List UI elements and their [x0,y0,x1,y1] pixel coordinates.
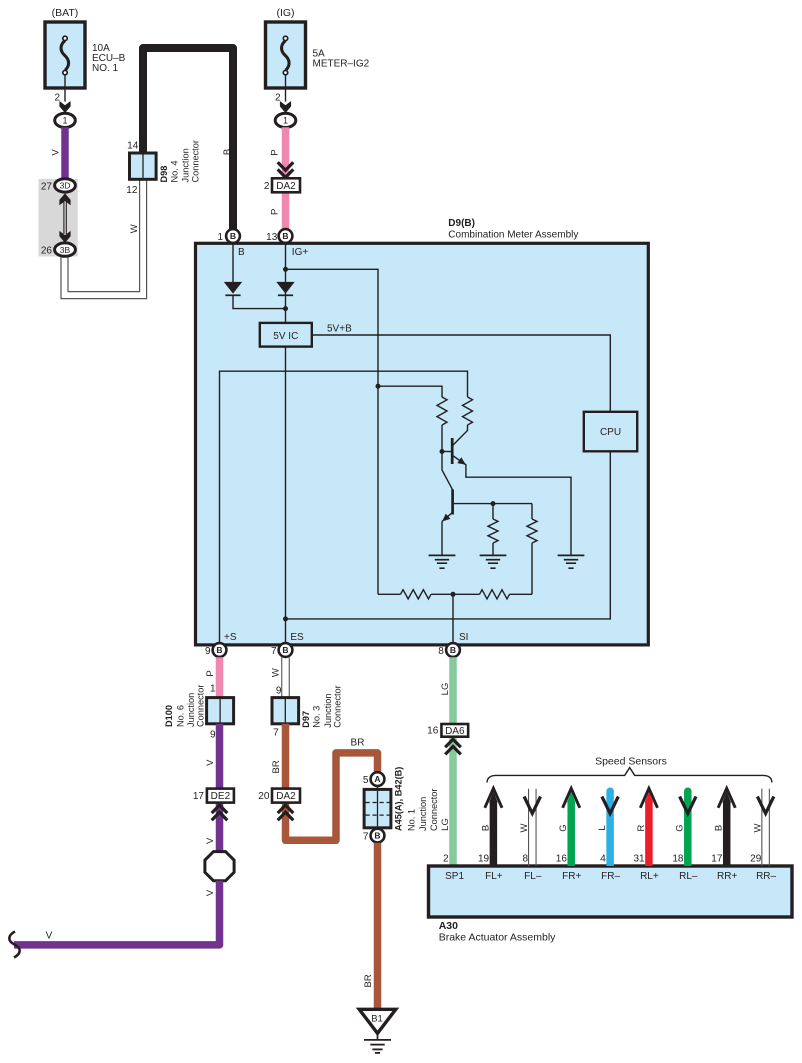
svg-text:SP1: SP1 [445,871,464,882]
svg-text:(BAT): (BAT) [52,7,79,19]
svg-text:Connector: Connector [195,685,205,727]
svg-text:G: G [675,824,686,831]
svg-text:ES: ES [290,632,304,643]
svg-text:Brake Actuator Assembly: Brake Actuator Assembly [439,931,556,943]
svg-text:LG: LG [440,818,451,831]
svg-text:B: B [714,825,725,831]
svg-text:2: 2 [443,854,449,865]
svg-text:BR: BR [363,974,374,987]
svg-text:31: 31 [633,854,645,865]
svg-text:METER–IG2: METER–IG2 [313,59,370,70]
svg-text:1: 1 [210,683,216,694]
svg-text:P: P [205,670,216,676]
svg-text:19: 19 [478,854,490,865]
svg-text:W: W [519,823,530,832]
svg-text:+S: +S [224,632,237,643]
svg-text:B: B [282,645,288,655]
svg-text:V: V [51,149,62,156]
svg-text:9: 9 [210,729,216,740]
svg-text:1: 1 [62,116,67,126]
svg-text:17: 17 [193,791,205,802]
svg-text:8: 8 [438,646,444,657]
svg-text:Combination Meter Assembly: Combination Meter Assembly [448,230,578,241]
svg-text:Junction: Junction [181,148,191,182]
svg-text:2: 2 [264,181,270,192]
svg-text:27: 27 [41,181,53,192]
svg-text:DA2: DA2 [276,791,296,802]
svg-text:No. 3: No. 3 [311,706,321,728]
svg-text:SI: SI [459,632,468,643]
svg-text:W: W [129,224,140,233]
svg-text:W: W [270,668,281,677]
svg-text:B: B [216,645,222,655]
svg-text:9: 9 [276,685,282,696]
svg-text:A: A [374,774,380,784]
svg-text:26: 26 [41,245,53,256]
svg-text:16: 16 [556,854,568,865]
svg-text:RR–: RR– [756,871,776,882]
svg-text:RL+: RL+ [640,871,659,882]
svg-text:V: V [46,931,53,942]
svg-text:LG: LG [440,683,451,696]
svg-text:V: V [205,889,216,896]
svg-text:V: V [205,837,216,844]
svg-text:7: 7 [273,727,279,738]
svg-text:5: 5 [363,775,369,786]
svg-text:B: B [238,247,245,258]
svg-text:A45(A), B42(B): A45(A), B42(B) [394,767,404,831]
svg-text:CPU: CPU [600,427,621,438]
svg-text:B: B [450,645,456,655]
svg-text:Junction: Junction [418,797,428,831]
svg-text:DA6: DA6 [445,726,465,737]
svg-text:DE2: DE2 [211,791,231,802]
svg-text:9: 9 [205,646,211,657]
svg-text:Junction: Junction [323,693,333,727]
svg-text:FL+: FL+ [485,871,503,882]
svg-text:DA2: DA2 [276,181,296,192]
svg-text:L: L [597,825,608,830]
svg-text:FR+: FR+ [562,871,581,882]
svg-text:29: 29 [750,854,762,865]
svg-text:13: 13 [266,232,278,243]
svg-text:Connector: Connector [332,685,342,727]
svg-text:18: 18 [672,854,684,865]
svg-text:B: B [222,149,233,155]
svg-text:D97: D97 [301,711,311,728]
svg-text:V: V [205,759,216,766]
svg-text:4: 4 [600,854,606,865]
svg-text:16: 16 [427,726,439,737]
svg-text:Speed Sensors: Speed Sensors [595,755,667,767]
svg-text:G: G [558,824,569,831]
svg-text:No. 1: No. 1 [406,809,416,831]
svg-text:FL–: FL– [524,871,542,882]
svg-text:B: B [374,831,380,841]
svg-text:Connector: Connector [429,789,439,831]
svg-text:BR: BR [271,760,282,773]
svg-text:IG+: IG+ [292,247,309,258]
svg-text:8: 8 [522,854,528,865]
svg-text:D100: D100 [164,705,174,727]
svg-text:1: 1 [283,116,288,126]
svg-text:(IG): (IG) [276,7,294,19]
svg-text:A30: A30 [439,920,458,932]
svg-text:No. 4: No. 4 [169,161,179,183]
svg-text:RR+: RR+ [717,871,737,882]
svg-text:14: 14 [127,140,139,151]
svg-text:P: P [270,149,281,155]
svg-text:B1: B1 [371,1013,383,1024]
svg-text:No. 6: No. 6 [176,705,186,727]
svg-text:P: P [270,209,281,215]
svg-text:D98: D98 [159,166,169,183]
svg-text:5V IC: 5V IC [273,331,298,342]
svg-text:B: B [282,231,288,241]
svg-text:7: 7 [271,646,277,657]
svg-text:B: B [230,231,236,241]
svg-text:Connector: Connector [191,140,201,182]
svg-text:7: 7 [363,831,369,842]
svg-text:R: R [636,824,647,831]
svg-text:17: 17 [711,854,723,865]
svg-text:20: 20 [258,791,270,802]
svg-text:5V+B: 5V+B [327,323,352,334]
svg-text:NO. 1: NO. 1 [92,63,119,74]
svg-text:12: 12 [126,185,138,196]
svg-text:1: 1 [217,232,223,243]
svg-text:3D: 3D [60,181,71,191]
svg-text:W: W [753,823,764,832]
svg-text:B: B [480,825,491,831]
svg-text:D9(B): D9(B) [448,218,475,229]
svg-text:BR: BR [351,738,365,749]
svg-text:3B: 3B [60,245,71,255]
svg-text:FR–: FR– [601,871,620,882]
svg-text:RL–: RL– [679,871,698,882]
